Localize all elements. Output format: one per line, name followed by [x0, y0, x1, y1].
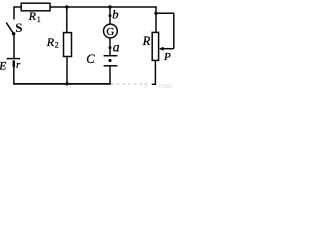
node junction R2 top — [65, 5, 68, 8]
rheostat R — [152, 32, 158, 60]
svg-text:P: P — [163, 51, 171, 63]
node terminal a — [109, 46, 112, 49]
resistor R1 — [21, 3, 50, 11]
switch S blade — [6, 23, 13, 34]
wire left vertical upper (to switch) — [13, 6, 15, 19]
battery E r long plate — [7, 58, 21, 60]
node junction R2 bottom — [65, 82, 68, 85]
svg-text:1: 1 — [37, 15, 41, 24]
galvanometer G — [104, 24, 118, 38]
wire top middle segment — [50, 6, 157, 8]
resistor R2 — [64, 33, 72, 57]
wire G branch upper — [109, 7, 111, 16]
wire slider branch right vertical — [173, 13, 175, 48]
wire rheostat to bottom-right corner — [154, 60, 156, 84]
wire slider branch horizontal — [156, 12, 174, 14]
slider arrowhead P — [159, 47, 164, 51]
wire battery to bottom-left corner — [13, 67, 15, 85]
svg-text:r: r — [16, 59, 21, 71]
svg-text:5: 5 — [144, 81, 148, 89]
svg-text:b: b — [112, 7, 118, 21]
node junction G branch top — [108, 5, 111, 8]
wire galvanometer to capacitor — [109, 38, 111, 56]
svg-text:C: C — [86, 52, 95, 66]
svg-text:R: R — [142, 34, 151, 48]
wire top-left horizontal segment — [13, 6, 21, 8]
node dot between capacitor plates — [108, 59, 111, 62]
svg-text:com: com — [159, 81, 172, 89]
svg-text:E: E — [0, 60, 6, 72]
wire capacitor to bottom wire — [109, 66, 111, 85]
svg-text:R: R — [28, 9, 37, 23]
wire left vertical lower (switch to battery) — [13, 34, 15, 58]
svg-text:a: a — [113, 40, 120, 55]
node junction slider branch — [154, 12, 157, 15]
resistor R2 stem top — [66, 7, 68, 33]
wire bottom-right corner stub — [152, 83, 156, 85]
wire top-right corner down — [155, 6, 157, 32]
node terminal b — [109, 14, 112, 17]
svg-text:2: 2 — [55, 40, 59, 49]
wire slider arm shaft — [162, 48, 174, 50]
wire bottom faint dashed segment (watermark area) — [111, 83, 152, 85]
svg-text:S: S — [15, 20, 22, 35]
capacitor C top plate — [104, 55, 118, 57]
resistor R2 stem bottom — [66, 57, 68, 84]
svg-text:G: G — [106, 26, 114, 38]
svg-text:R: R — [46, 35, 55, 49]
capacitor C bottom plate — [104, 65, 118, 67]
wire b to galvanometer — [109, 16, 111, 24]
battery short thick plate — [13, 60, 15, 67]
switch S pivot dot — [12, 32, 16, 36]
wire bottom solid segment — [13, 83, 111, 85]
